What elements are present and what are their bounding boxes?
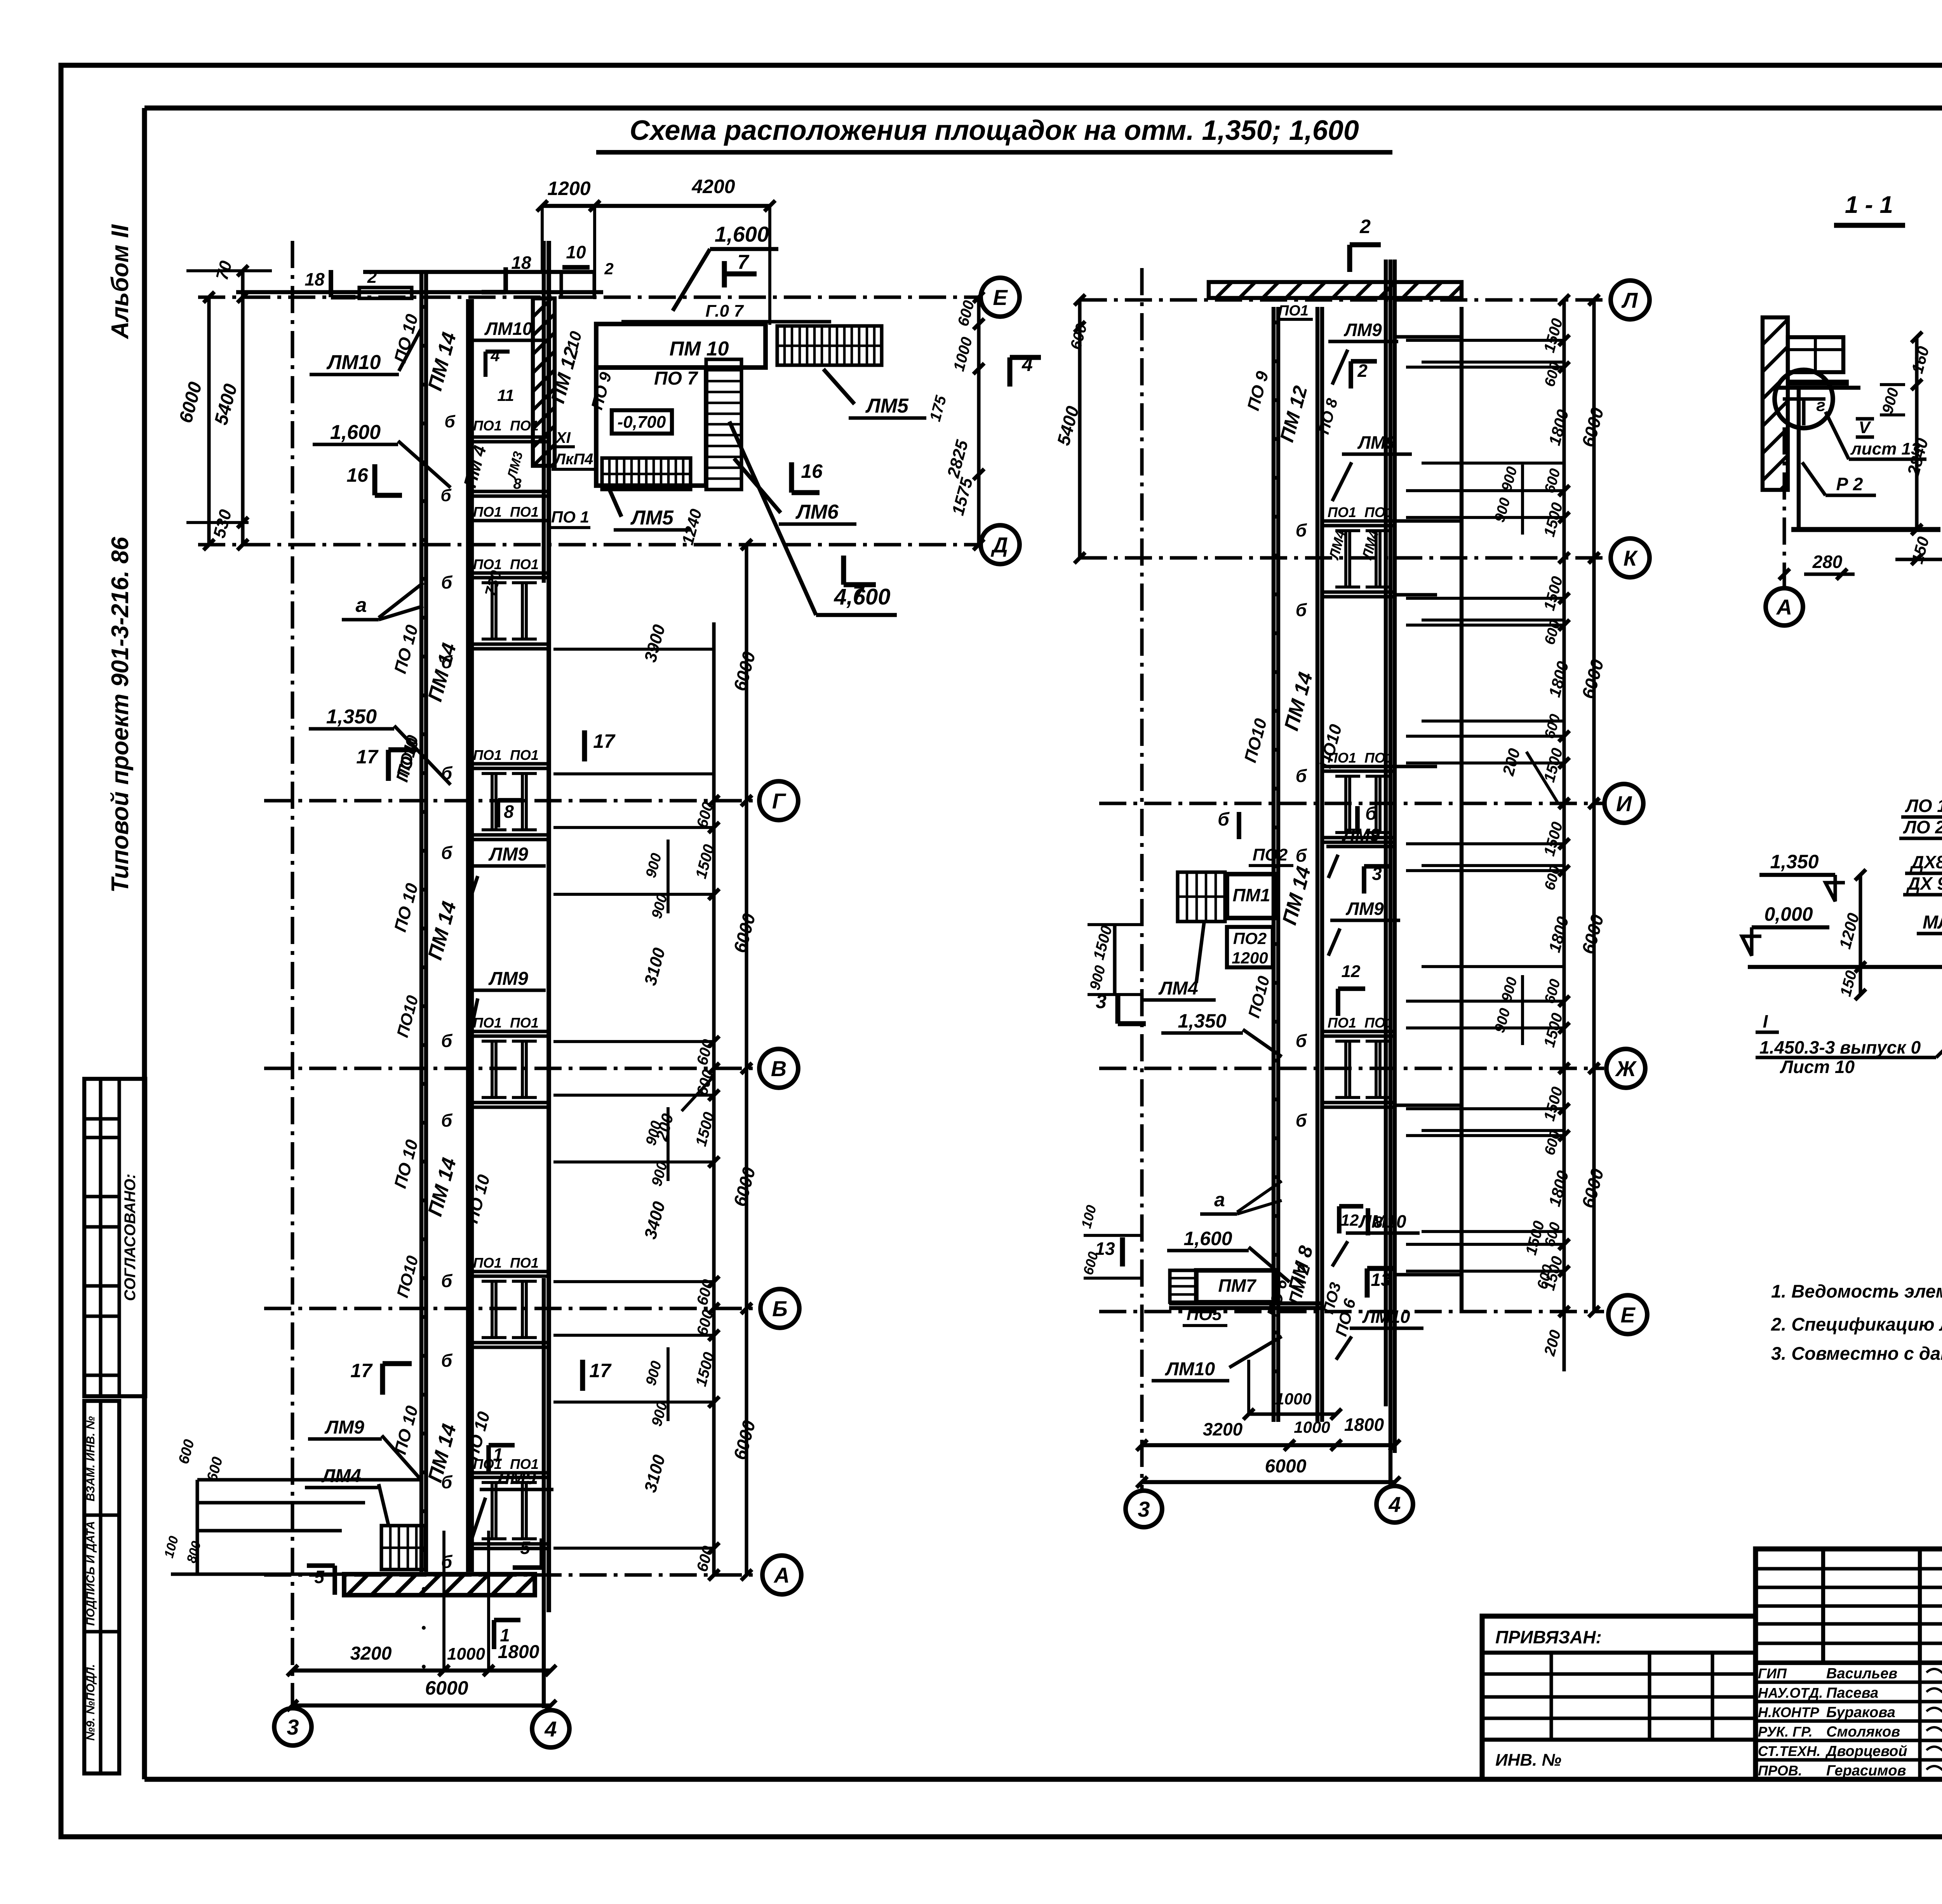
svg-text:б: б (1296, 766, 1307, 786)
svg-text:12: 12 (1342, 962, 1361, 981)
center axis row K (1080, 556, 1608, 559)
svg-text:б: б (1296, 1031, 1307, 1051)
svg-text:ПО1: ПО1 (473, 747, 502, 763)
svg-text:СТ.ТЕХН.: СТ.ТЕХН. (1758, 1743, 1820, 1759)
center plan interior room lines (1460, 339, 1463, 519)
svg-text:Васильев: Васильев (1826, 1665, 1897, 1682)
svg-text:б: б (441, 1110, 453, 1131)
svg-text:Н.КОНТР: Н.КОНТР (1758, 1704, 1820, 1720)
center right dims Zh-E (1562, 1068, 1566, 1312)
svg-text:2: 2 (604, 260, 613, 278)
svg-text:16: 16 (346, 464, 369, 486)
axis line 1-1 (1782, 427, 1786, 587)
svg-text:Пасева: Пасева (1826, 1685, 1878, 1701)
svg-text:б: б (441, 1350, 453, 1371)
svg-text:Буракова: Буракова (1826, 1704, 1895, 1721)
svg-text:17: 17 (589, 1360, 612, 1381)
svg-text:3: 3 (1138, 1497, 1150, 1521)
svg-text:ПО1: ПО1 (510, 1015, 539, 1031)
axis row G (264, 799, 757, 802)
witness lines gaps left plan (553, 826, 714, 829)
svg-text:Е: Е (993, 285, 1008, 310)
svg-text:б: б (1296, 520, 1307, 540)
approval table (84, 1079, 145, 1396)
axis row V (264, 1066, 757, 1070)
bottom left witness lines (197, 1478, 423, 1481)
svg-text:4,600: 4,600 (834, 584, 890, 610)
svg-text:б: б (441, 1271, 453, 1291)
svg-text:б: б (444, 412, 456, 431)
svg-text:б: б (441, 1031, 453, 1051)
svg-text:5: 5 (520, 1538, 531, 1558)
svg-text:ЛкП4: ЛкП4 (554, 451, 593, 468)
svg-text:1. Ведомость элементов приве: 1. Ведомость элементов приведена на лист… (1771, 1281, 1942, 1301)
svg-text:ЛМ10: ЛМ10 (1358, 1211, 1406, 1232)
svg-text:А: А (773, 1563, 790, 1587)
svg-text:1,350: 1,350 (1770, 851, 1818, 873)
margin strip table (84, 1401, 119, 1773)
axis circle D (981, 525, 1020, 564)
right dims G-V (712, 801, 715, 1068)
svg-text:1.450.3-3 выпуск 0: 1.450.3-3 выпуск 0 (1759, 1037, 1921, 1057)
top inner band line (144, 106, 1942, 111)
svg-text:-0,700: -0,700 (618, 413, 666, 432)
svg-text:Дворцевой: Дворцевой (1825, 1743, 1907, 1759)
axis circle A section (1766, 588, 1803, 625)
svg-text:4: 4 (1388, 1492, 1401, 1517)
svg-text:1000: 1000 (1294, 1418, 1330, 1436)
svg-text:ПО1: ПО1 (1364, 750, 1393, 766)
axis circle G (759, 781, 798, 820)
svg-text:ПМ 10: ПМ 10 (669, 338, 729, 360)
center left dims top (1078, 300, 1081, 558)
center right dims below E (1562, 1312, 1566, 1371)
svg-text:ПМ1: ПМ1 (1233, 885, 1270, 905)
stair LM5 lower (602, 458, 691, 490)
svg-text:17: 17 (350, 1360, 373, 1381)
svg-text:ПОДПИСЬ И ДАТА: ПОДПИСЬ И ДАТА (84, 1521, 97, 1626)
svg-text:6000: 6000 (425, 1677, 468, 1699)
svg-text:1,600: 1,600 (715, 222, 769, 246)
svg-text:ЛМ10: ЛМ10 (326, 351, 381, 374)
svg-text:3200: 3200 (350, 1643, 392, 1664)
center axis row E2 (1099, 1310, 1604, 1313)
svg-text:А: А (1776, 595, 1792, 619)
revision grid rows (1756, 1567, 1942, 1570)
svg-text:ДХ8: ДХ8 (1909, 852, 1942, 872)
svg-text:4: 4 (490, 347, 499, 365)
center left dims at Zh (1113, 925, 1116, 995)
center right dims K-I (1562, 558, 1566, 803)
title block outer (1482, 1616, 1756, 1779)
svg-text:ЛМ9: ЛМ9 (1357, 432, 1396, 453)
axis row B (264, 1306, 757, 1310)
svg-text:XI: XI (555, 429, 571, 446)
unit near row E (468, 435, 549, 439)
svg-text:№9. №ПОДЛ.: №9. №ПОДЛ. (84, 1664, 97, 1740)
left plan strip wall lines (419, 272, 423, 1572)
svg-text:ЛМ10: ЛМ10 (484, 319, 532, 339)
svg-text:ЛМ5: ЛМ5 (865, 395, 909, 417)
svg-text:ПО1: ПО1 (473, 1015, 502, 1031)
svg-text:Смоляков: Смоляков (1826, 1724, 1900, 1740)
svg-text:ПО1: ПО1 (510, 747, 539, 763)
svg-text:1,600: 1,600 (330, 421, 381, 444)
bottom stair LM (381, 1526, 425, 1570)
right top dims E-D (977, 297, 980, 545)
svg-text:2: 2 (1359, 216, 1371, 237)
left plan rivet dots (422, 305, 426, 309)
platform 1-1 (1788, 337, 1843, 372)
svg-text:ПО1: ПО1 (1328, 504, 1356, 520)
svg-text:б: б (440, 486, 452, 505)
svg-text:10: 10 (566, 242, 586, 262)
svg-text:НАУ.ОТД.: НАУ.ОТД. (1758, 1685, 1823, 1701)
witness bottom 1 (442, 1531, 445, 1671)
svg-text:ПО1: ПО1 (510, 556, 539, 572)
svg-text:Б: Б (772, 1296, 788, 1321)
svg-text:8: 8 (504, 801, 514, 822)
svg-text:ПО2: ПО2 (1253, 845, 1288, 864)
top dimension chain 1200 4200 (542, 204, 770, 208)
platform PM10 (596, 324, 766, 368)
axis row A (264, 1573, 757, 1577)
right dims D-G partial (712, 622, 715, 801)
svg-text:3: 3 (1096, 991, 1107, 1012)
top small dim row lines (363, 270, 594, 274)
center axis row I (1099, 801, 1604, 805)
svg-text:ЛМ9: ЛМ9 (324, 1417, 364, 1438)
svg-text:2. Спецификацию лестниц смот: 2. Спецификацию лестниц смотреть на лист… (1771, 1314, 1942, 1334)
svg-text:1800: 1800 (1344, 1414, 1384, 1435)
svg-text:17: 17 (593, 730, 616, 752)
svg-text:б: б (1296, 845, 1307, 866)
center axis circle 3 (1126, 1491, 1162, 1527)
svg-text:ПО1: ПО1 (510, 504, 539, 520)
svg-text:5: 5 (314, 1567, 325, 1587)
center platform joint unit (1322, 1030, 1395, 1033)
svg-text:1000: 1000 (447, 1644, 485, 1664)
svg-text:б: б (441, 843, 453, 863)
svg-text:Типовой проект 901-3-216. 86: Типовой проект 901-3-216. 86 (107, 537, 134, 893)
svg-text:ПРИВЯЗАН:: ПРИВЯЗАН: (1495, 1627, 1602, 1647)
axis circle V (759, 1049, 798, 1088)
svg-text:4: 4 (544, 1717, 557, 1741)
svg-text:ПО1: ПО1 (473, 504, 502, 520)
svg-text:3: 3 (287, 1715, 299, 1739)
axis row E (198, 295, 979, 299)
wall hatch 1-1 (1763, 317, 1788, 490)
svg-text:17: 17 (356, 746, 379, 768)
axis circle E (981, 278, 1020, 317)
svg-text:1,350: 1,350 (326, 706, 377, 728)
svg-text:ЛО 1: ЛО 1 (1905, 796, 1942, 816)
left plan column axis 3 (291, 241, 294, 1707)
center axis row L (1080, 298, 1608, 301)
center axis circle 4 (1376, 1486, 1413, 1523)
center bottom dim 6000 (1142, 1480, 1395, 1484)
svg-text:ПО1: ПО1 (510, 418, 539, 434)
detail circle g (1775, 370, 1833, 428)
bottom dim chain 3200 1000 1800 (292, 1669, 551, 1672)
svg-text:0,000: 0,000 (1764, 903, 1813, 925)
svg-text:ЛО 2: ЛО 2 (1903, 817, 1942, 837)
center bottom dims 3200 1000 1800 (1142, 1443, 1395, 1447)
axis 4 line left plan (542, 1278, 546, 1708)
center strip verticals (1272, 307, 1276, 1422)
platform joint unit (468, 1030, 549, 1033)
revision grid columns (1821, 1549, 1825, 1663)
svg-text:ПО1: ПО1 (1328, 1015, 1356, 1031)
center top hatched wall (1209, 282, 1462, 298)
inv no cell (1482, 1738, 1756, 1742)
svg-text:И: И (1616, 791, 1632, 816)
svg-text:ЛМ5: ЛМ5 (630, 507, 674, 529)
center platform joint unit (1322, 519, 1395, 523)
svg-text:Альбом II: Альбом II (107, 224, 134, 340)
svg-text:18: 18 (511, 253, 531, 273)
svg-text:ПО1: ПО1 (473, 418, 502, 434)
svg-text:ПО1: ПО1 (1364, 504, 1393, 520)
svg-text:ПО1: ПО1 (473, 556, 502, 572)
svg-text:ПО1: ПО1 (473, 1255, 502, 1271)
dims 1200 150 3-3 (1858, 875, 1862, 995)
signature squiggles (1926, 1669, 1942, 1676)
svg-text:а: а (356, 594, 367, 617)
axis circle 3 left plan (274, 1708, 311, 1745)
strip bottom double line center (1169, 1301, 1322, 1305)
platform PM1 (1227, 874, 1276, 918)
center plan axis 3 vertical (1140, 268, 1143, 1490)
svg-text:I: I (1763, 1011, 1768, 1031)
stair and box PM7 (1170, 1270, 1196, 1302)
center axis row Zh (1099, 1066, 1604, 1070)
svg-text:11: 11 (497, 386, 514, 404)
svg-text:1 - 1: 1 - 1 (1845, 192, 1893, 218)
privyazan table rows (1482, 1672, 1756, 1676)
svg-text:ПО2: ПО2 (1233, 929, 1267, 948)
stair LM6 vertical (706, 359, 741, 490)
witness lines center plan gaps (1406, 339, 1564, 342)
center right dims I-Zh (1562, 803, 1566, 1068)
platform joint unit (468, 1471, 549, 1474)
svg-text:ПО1: ПО1 (510, 1255, 539, 1271)
svg-text:ПО 1: ПО 1 (551, 508, 589, 526)
svg-text:Ж: Ж (1615, 1056, 1637, 1081)
ground hatch bar left plan (344, 1574, 535, 1595)
bottom dim 6000 (292, 1704, 551, 1707)
svg-text:1000: 1000 (1275, 1390, 1311, 1408)
right dims B-A (712, 1308, 715, 1575)
svg-text:Г: Г (772, 789, 787, 813)
svg-text:ЛМ10: ЛМ10 (1362, 1306, 1410, 1327)
svg-text:Д: Д (991, 533, 1008, 557)
svg-text:Герасимов: Герасимов (1826, 1763, 1906, 1779)
svg-text:Е: Е (1620, 1303, 1636, 1327)
svg-text:ЛМ9: ЛМ9 (1345, 899, 1384, 919)
svg-text:К: К (1624, 546, 1638, 570)
svg-text:1: 1 (500, 1625, 510, 1645)
inner drawing frame left (142, 108, 147, 1779)
svg-text:ИНВ. №: ИНВ. № (1495, 1751, 1561, 1770)
svg-text:Г.0 7: Г.0 7 (705, 301, 744, 321)
axis row D (198, 543, 979, 546)
svg-text:ПО 7: ПО 7 (654, 368, 698, 389)
platform joint unit (468, 1270, 549, 1273)
svg-text:ПО1: ПО1 (1364, 1015, 1393, 1031)
svg-text:Л: Л (1621, 288, 1638, 312)
svg-text:V: V (1858, 418, 1871, 437)
svg-text:б: б (1365, 803, 1377, 824)
svg-text:а: а (1214, 1189, 1225, 1211)
center interior witness lines right rooms (1422, 361, 1564, 364)
svg-text:12: 12 (1341, 1211, 1359, 1229)
post 1-1 (1797, 389, 1801, 528)
svg-text:1200: 1200 (547, 178, 590, 199)
svg-text:4200: 4200 (691, 176, 735, 197)
floor line 3-3 left (1748, 965, 1942, 969)
svg-text:б: б (441, 572, 453, 592)
center plan axis 4 vertical (1389, 260, 1392, 1486)
left dim chain 6000 5400 530 (207, 297, 211, 545)
svg-text:3. Совместно с данным листом с: 3. Совместно с данным листом смотреть ли… (1771, 1343, 1942, 1364)
svg-text:ЛМ10: ЛМ10 (1165, 1359, 1215, 1380)
axis circle B (760, 1289, 799, 1328)
inner drawing frame bottom (144, 1777, 1942, 1782)
center platform joint unit (1322, 765, 1395, 768)
svg-text:2: 2 (367, 268, 377, 287)
center right dims L-K (1562, 300, 1566, 558)
center rivet dots (1274, 321, 1278, 324)
svg-text:ГИП: ГИП (1758, 1665, 1787, 1681)
svg-text:б: б (1296, 600, 1307, 620)
svg-text:ЛМ9: ЛМ9 (488, 969, 528, 989)
dim verticals 1-1 (1915, 337, 1918, 530)
svg-text:280: 280 (1812, 552, 1843, 572)
platform joint unit (468, 571, 549, 575)
svg-text:1200: 1200 (1232, 949, 1268, 967)
svg-text:б: б (1296, 1110, 1307, 1131)
platform joint unit (468, 762, 549, 765)
svg-text:7: 7 (738, 251, 750, 273)
stair LM4 center (1178, 872, 1225, 922)
svg-text:1,600: 1,600 (1183, 1228, 1232, 1249)
svg-text:МЛ2: МЛ2 (1923, 912, 1942, 933)
svg-text:Схема расположения площадок: Схема расположения площадок на отм. 1,35… (630, 115, 1359, 146)
center bottom dim 1000 (1249, 1412, 1336, 1416)
svg-text:Р 2: Р 2 (1836, 474, 1863, 494)
svg-text:ЛМ6: ЛМ6 (795, 501, 839, 523)
svg-text:1,350: 1,350 (1178, 1010, 1226, 1032)
svg-text:Лист 10: Лист 10 (1780, 1057, 1855, 1077)
left plan hatched wall band (533, 298, 555, 466)
svg-text:ПМ7: ПМ7 (1218, 1275, 1257, 1296)
svg-text:ЛМ4: ЛМ4 (321, 1466, 361, 1486)
svg-text:ПО1: ПО1 (1278, 303, 1309, 319)
svg-text:ЛМ9: ЛМ9 (1342, 825, 1380, 845)
base line 1-1 (1791, 527, 1940, 532)
unit box D upper lines (468, 519, 549, 522)
stair LM5 top (777, 326, 882, 365)
svg-text:ЛМ9: ЛМ9 (496, 1468, 536, 1488)
svg-text:ВЗАМ. ИНВ. №: ВЗАМ. ИНВ. № (84, 1416, 97, 1501)
svg-text:18: 18 (305, 269, 325, 289)
svg-text:13: 13 (1371, 1270, 1391, 1290)
small stub walls top (359, 287, 412, 298)
svg-text:6000: 6000 (1265, 1456, 1307, 1477)
axis circle A (762, 1556, 801, 1594)
platform PO7 (596, 368, 706, 486)
svg-text:РУК. ГР.: РУК. ГР. (1758, 1724, 1813, 1740)
svg-text:ДХ 9: ДХ 9 (1906, 873, 1942, 894)
svg-text:ПРОВ.: ПРОВ. (1758, 1763, 1802, 1779)
level mark -0700 box (612, 410, 672, 434)
svg-text:СОГЛАСОВАНО:: СОГЛАСОВАНО: (122, 1174, 139, 1301)
svg-text:16: 16 (801, 460, 823, 482)
svg-text:ЛМ4: ЛМ4 (1158, 978, 1198, 999)
svg-text:ЛМ9: ЛМ9 (488, 844, 528, 865)
svg-text:3200: 3200 (1203, 1419, 1243, 1439)
right dims V-B (712, 1068, 715, 1308)
svg-text:В: В (771, 1056, 787, 1081)
svg-text:ЛМ9: ЛМ9 (1343, 320, 1382, 340)
axis circle 4 left plan (532, 1710, 569, 1747)
box PO2 1200 (1227, 927, 1273, 967)
svg-text:б: б (1218, 809, 1230, 830)
